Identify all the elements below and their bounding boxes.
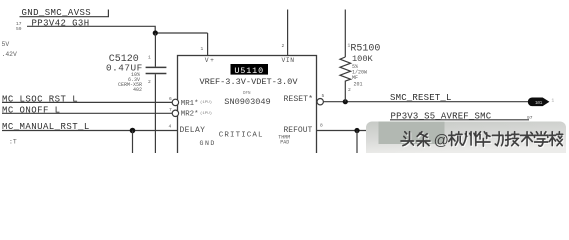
- pin number 8 REFOUT: [320, 123, 323, 129]
- resistor R5100: [340, 10, 351, 102]
- svg-text:U5110: U5110: [234, 66, 264, 76]
- 条: [417, 132, 430, 146]
- svg-text:(1PU): (1PU): [200, 100, 212, 105]
- sheet ref mark: [552, 99, 555, 104]
- node SMC_LSOC_RST_L: [2, 94, 78, 104]
- svg-text:1: 1: [148, 55, 151, 61]
- wire MR1: [2, 101, 172, 103]
- svg-text:VIN: VIN: [282, 57, 295, 64]
- svg-text:CRITICAL: CRITICAL: [219, 131, 264, 139]
- svg-text:2: 2: [148, 79, 151, 85]
- svg-text:MR1*: MR1*: [181, 100, 199, 108]
- svg-text:DELAY: DELAY: [180, 126, 206, 135]
- pin GND: [200, 140, 216, 147]
- svg-text:8: 8: [320, 123, 323, 129]
- pin number 2 VIN: [282, 43, 285, 49]
- sheet refs 17 59: [16, 21, 22, 32]
- svg-text:DFN: DFN: [243, 92, 251, 96]
- svg-text:V+: V+: [205, 57, 216, 64]
- 校: [549, 132, 562, 146]
- svg-text:5V: 5V: [2, 41, 10, 48]
- pin V+: [205, 57, 216, 64]
- svg-text:.42V: .42V: [2, 51, 18, 58]
- pin MR1* bubble: [172, 99, 178, 105]
- 头: [401, 132, 413, 146]
- pin 2 C5120: [148, 79, 151, 85]
- wire REFOUT net: [317, 130, 441, 132]
- pin number 6 MR1: [169, 96, 172, 102]
- wire SMC_RESET_L: [324, 101, 531, 103]
- svg-text:REFOUT: REFOUT: [284, 126, 313, 135]
- 华: [477, 132, 490, 146]
- pin 2 R5100: [348, 87, 351, 93]
- node PP3V42_G3H: [32, 18, 90, 28]
- svg-text:2: 2: [348, 87, 351, 93]
- 术: [520, 132, 533, 146]
- 杭: [449, 132, 462, 146]
- pin MR2* bubble: [172, 110, 178, 116]
- svg-text:201: 201: [354, 81, 363, 87]
- pin number 1 V+: [201, 46, 204, 52]
- wire MR2: [2, 112, 172, 114]
- svg-text:101: 101: [535, 100, 543, 106]
- label VREF-3.3V-VDET-3.0V: [200, 77, 299, 87]
- svg-text:5: 5: [322, 93, 325, 99]
- svg-text:(1PU): (1PU): [200, 111, 212, 116]
- svg-text:1: 1: [201, 46, 204, 52]
- node SMC_ONOFF_L: [2, 105, 61, 115]
- wire REFOUT drop: [356, 131, 358, 154]
- pin number 7 MR2: [169, 107, 172, 113]
- svg-text:PAD: PAD: [280, 139, 289, 145]
- svg-text:MR2*: MR2*: [181, 111, 199, 119]
- watermark text 头条 @杭州华力技术学校: [402, 133, 564, 147]
- svg-text:2: 2: [282, 43, 285, 49]
- label DFN: [243, 92, 251, 96]
- svg-text::T: :T: [9, 139, 17, 146]
- watermark box: [366, 122, 566, 154]
- svg-text:6: 6: [169, 96, 172, 102]
- svg-text:VREF-3.3V-VDET-3.0V: VREF-3.3V-VDET-3.0V: [200, 77, 299, 87]
- svg-text:@: @: [434, 132, 449, 149]
- pin VIN: [282, 57, 295, 64]
- pin 1 R5100: [348, 43, 351, 49]
- pin THRM PAD: [278, 135, 290, 146]
- junction REFOUT: [354, 128, 359, 133]
- svg-text:GND: GND: [200, 140, 216, 147]
- wire DELAY cap drop: [132, 131, 134, 154]
- svg-text:402: 402: [133, 87, 142, 93]
- label SN0903049: [224, 97, 270, 107]
- svg-text:1: 1: [552, 99, 555, 104]
- junction R5100/RESET: [343, 99, 348, 104]
- node GND_SMC_AVSS: [20, 8, 109, 18]
- 力: [492, 132, 503, 146]
- svg-text:4: 4: [169, 124, 172, 130]
- label :T partial: [9, 139, 17, 146]
- pin MR1*: [181, 100, 212, 108]
- wire VIN drop: [287, 10, 289, 56]
- svg-text:SMC_RESET_L: SMC_RESET_L: [390, 93, 452, 103]
- node PP3V3_S5_AVREF_SMC: [390, 112, 533, 122]
- pin RESET*: [284, 94, 313, 104]
- op-amp U5110 chip body: [178, 56, 317, 166]
- pin DELAY: [180, 126, 206, 135]
- junction DELAY cap: [130, 128, 136, 134]
- pin number 4 DELAY: [169, 124, 172, 130]
- refdes U5110 highlighted: [231, 64, 269, 76]
- 技: [506, 132, 519, 146]
- wire PP3V42 net: [27, 26, 208, 55]
- pin RESET* bubble: [317, 99, 323, 105]
- junction PP3V42/C5120: [153, 30, 158, 35]
- pin 1 C5120: [148, 55, 151, 61]
- capacitor C5120: [146, 33, 167, 153]
- 州: [463, 132, 476, 146]
- svg-text:100K: 100K: [352, 54, 373, 64]
- pin MR2*: [181, 111, 212, 119]
- svg-text:SN0903049: SN0903049: [224, 97, 270, 107]
- label R5100 value block: [350, 43, 380, 87]
- wire DELAY: [2, 130, 178, 132]
- svg-text:R5100: R5100: [350, 43, 380, 54]
- label CRITICAL: [219, 131, 264, 139]
- svg-text:59: 59: [16, 26, 22, 32]
- label 5V partial: [2, 41, 10, 48]
- offpage connector SMC_RESET_L: [528, 98, 548, 106]
- 学: [535, 132, 548, 146]
- node SMC_MANUAL_RST_L: [2, 122, 90, 132]
- label .42V partial: [2, 51, 18, 58]
- svg-text:97: 97: [527, 115, 533, 121]
- label C5120 value block: [106, 54, 143, 93]
- pin number 5 RESET: [322, 93, 325, 99]
- svg-text:7: 7: [169, 107, 172, 113]
- pin REFOUT: [284, 126, 313, 135]
- svg-text:RESET*: RESET*: [284, 94, 313, 104]
- node SMC_RESET_L label: [390, 93, 452, 103]
- svg-text:MF: MF: [352, 75, 358, 81]
